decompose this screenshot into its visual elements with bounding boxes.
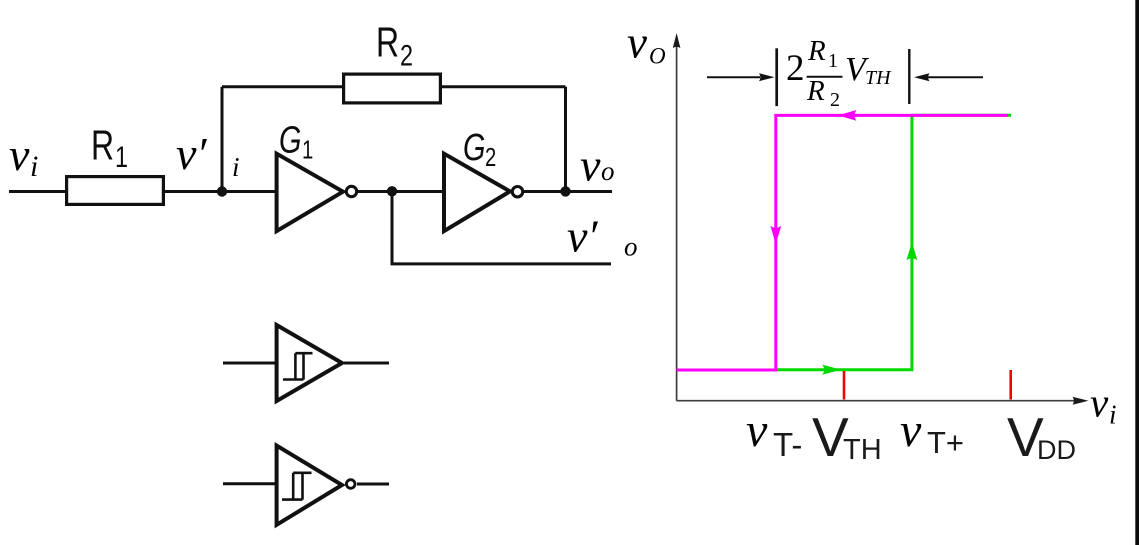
svg-text:v: v <box>900 404 922 457</box>
y axis <box>676 45 678 401</box>
wire: node B to G2 input <box>392 190 442 193</box>
schmitt trigger symbol 2 triangle <box>277 446 342 525</box>
svg-text:v′: v′ <box>176 128 207 179</box>
annotation left tick <box>775 48 778 106</box>
magenta transfer curve (falling input) <box>677 115 1008 370</box>
svg-text:v: v <box>1090 380 1109 426</box>
svg-text:G: G <box>463 126 485 169</box>
svg-text:v: v <box>580 140 601 191</box>
annotation left-pointing arrow <box>928 76 983 78</box>
wire: R2 to output vertical <box>442 85 566 88</box>
svg-text:v: v <box>746 404 768 457</box>
svg-text:i: i <box>1109 400 1117 430</box>
wire: G1 to node B <box>358 190 392 193</box>
svg-text:R: R <box>376 18 399 65</box>
svg-text:o: o <box>601 156 615 186</box>
svg-text:1: 1 <box>828 50 838 72</box>
svg-text:v: v <box>9 129 30 180</box>
svg-text:TH: TH <box>843 434 882 466</box>
schmitt symbol 1 output wire <box>344 362 389 365</box>
svg-text:o: o <box>624 232 638 262</box>
wire: input vi to R1 <box>9 190 65 193</box>
annotation right-pointing arrow <box>707 76 760 78</box>
resistor R2 <box>344 74 441 103</box>
x axis arrowhead <box>1073 397 1089 405</box>
svg-text:T+: T+ <box>927 425 964 460</box>
schmitt trigger symbol 1 (buffer) input wire <box>223 362 275 365</box>
wire: R1 to node v'i <box>165 190 222 193</box>
svg-text:TH: TH <box>865 67 892 89</box>
svg-text:i: i <box>30 150 38 183</box>
svg-text:2: 2 <box>400 39 413 72</box>
schmitt symbol 2 hysteresis glyph <box>282 473 312 500</box>
wire: node B down and right (v'o) <box>392 191 611 264</box>
schmitt trigger symbol 1 triangle <box>277 325 342 401</box>
green transfer curve (rising input) <box>776 115 1011 370</box>
resistor R1 <box>67 177 164 205</box>
node vo junction dot <box>560 186 570 196</box>
svg-text:i: i <box>232 152 240 182</box>
svg-text:T-: T- <box>773 426 802 463</box>
schmitt symbol 1 hysteresis glyph <box>283 353 313 379</box>
annotation right tick <box>908 49 910 104</box>
schmitt trigger symbol 2 (inverter) input wire <box>223 482 275 485</box>
wire: G2 to vo node <box>524 190 566 193</box>
red tick VTH <box>843 371 846 400</box>
svg-text:R: R <box>91 121 114 168</box>
y axis arrowhead <box>673 33 681 48</box>
svg-text:G: G <box>279 119 301 162</box>
x axis <box>677 400 1076 402</box>
magenta down arrowhead <box>770 226 781 244</box>
G1 output bubble <box>346 186 356 196</box>
svg-text:v′: v′ <box>567 211 598 262</box>
page border bar (right edge) <box>1135 0 1139 545</box>
svg-text:1: 1 <box>115 140 128 173</box>
wire: node up to feedback <box>221 87 224 192</box>
G2 output bubble <box>512 187 522 197</box>
svg-text:2: 2 <box>786 48 805 89</box>
svg-text:2: 2 <box>485 143 496 172</box>
svg-text:R: R <box>806 75 825 107</box>
svg-text:v: v <box>627 18 647 68</box>
svg-text:1: 1 <box>302 135 313 164</box>
inverter G1 <box>277 154 343 231</box>
node v'i junction dot <box>217 186 227 196</box>
svg-text:R: R <box>807 35 826 67</box>
wire: vo node to right <box>566 190 613 193</box>
schmitt symbol 2 output wire <box>357 483 389 486</box>
svg-text:O: O <box>649 44 666 69</box>
svg-text:DD: DD <box>1037 435 1076 465</box>
schmitt symbol 2 output bubble <box>346 480 355 489</box>
inverter G2 <box>444 154 510 231</box>
green up arrowhead <box>907 242 918 260</box>
wire: feedback top left to R2 <box>222 85 342 88</box>
wire: feedback right vertical down to vo node <box>564 87 567 192</box>
green right arrowhead <box>822 365 841 375</box>
node B junction dot <box>387 186 397 196</box>
svg-text:2: 2 <box>830 89 840 111</box>
wire: node to G1 input <box>222 190 275 193</box>
red tick VDD <box>1009 370 1012 400</box>
magenta left arrowhead <box>838 110 856 121</box>
